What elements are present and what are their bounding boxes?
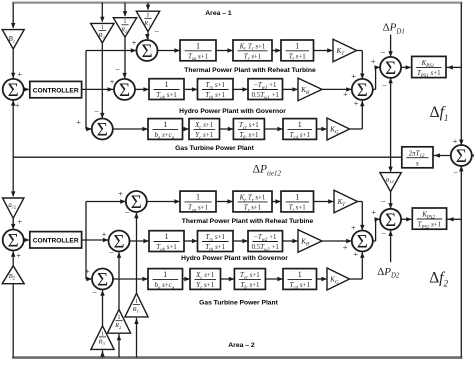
svg-text:R3: R3: [97, 32, 106, 40]
block thermal1 turbine 1/(Tt s+1): [281, 40, 314, 62]
svg-text:Σ: Σ: [357, 232, 368, 253]
svg-text:Σ: Σ: [141, 41, 152, 62]
svg-text:Gas Turbine Power Plant: Gas Turbine Power Plant: [199, 300, 278, 307]
block thermal1 reheat (KrTr s+1)/(Tr s+1): [233, 40, 272, 62]
summing junction thermal1 governor: [132, 27, 160, 63]
svg-text:1: 1: [298, 120, 302, 129]
svg-text:1: 1: [117, 314, 120, 321]
svg-text:Σ: Σ: [385, 58, 396, 79]
wire Δf1 into power system block area1: [446, 65, 461, 69]
summing junction ACE1: [3, 69, 24, 110]
wire gas1 positioner to speed governor: [183, 127, 190, 131]
wire ΔP_D2 into load summer area2: [388, 230, 392, 262]
svg-text:1: 1: [298, 270, 302, 279]
gain B2 (frequency bias area2): [2, 266, 24, 284]
svg-text:CONTROLLER: CONTROLLER: [33, 238, 79, 245]
wire hydro1 droop to water turbine: [233, 87, 248, 91]
block thermal2 reheat (KrTr s+1)/(Tr s+1): [233, 191, 272, 213]
gain B1 (frequency bias area1): [2, 30, 24, 49]
svg-text:−: −: [92, 288, 97, 298]
wire Δf2 up to B2 gain: [12, 284, 14, 358]
svg-text:Σ: Σ: [8, 231, 19, 252]
summing junction load disturbance area2: [371, 197, 401, 238]
svg-text:Σ: Σ: [97, 120, 108, 141]
wire a12 to ACE2 summer: [11, 218, 15, 229]
wire thermal2 summer to governor block: [147, 199, 180, 203]
svg-text:1: 1: [163, 270, 167, 279]
svg-text:+: +: [453, 136, 458, 146]
wire thermal1 reheat to turbine: [272, 48, 281, 52]
wire gas2 summer to valve positioner: [113, 277, 148, 281]
svg-text:+: +: [85, 266, 90, 276]
wire gas1 summer to valve positioner: [113, 127, 148, 131]
wire 1/R2 to hydro2 summer: [117, 252, 121, 309]
wire load summer to power system block area2: [401, 217, 412, 221]
wire thermal2 governor to reheat: [216, 199, 233, 203]
gain 1/R3 governor droop gas area1: [91, 23, 114, 43]
svg-text:−: −: [94, 106, 99, 116]
svg-text:Σ: Σ: [131, 192, 142, 213]
svg-text:R3: R3: [98, 338, 107, 346]
svg-text:Thermal Power Plant with Rehea: Thermal Power Plant with Reheat Turbine: [182, 218, 314, 225]
svg-text:1: 1: [295, 193, 299, 202]
gain KT thermal participation area2: [334, 190, 358, 213]
wire gas1 fuel to compressor discharge: [264, 127, 283, 131]
block gas2 compressor discharge 1/(Tcd s+1): [283, 269, 317, 291]
block thermal2 governor 1/(Tsg s+1): [180, 191, 216, 213]
wire gas2 discharge to KG gain: [317, 277, 328, 281]
wire Δf2 up to 1/R2 area2: [117, 334, 121, 358]
wire branch to thermal2 summer: [86, 199, 126, 203]
svg-text:1: 1: [146, 12, 149, 19]
wire a12 to load summer area2: [388, 192, 392, 209]
wire Δf2 up to 1/R1 area2: [134, 318, 138, 358]
summing junction total generation area1: [343, 71, 373, 108]
wire B2 to ACE2 summer: [11, 251, 15, 266]
wire hydro2 summer to governor block: [130, 239, 150, 243]
wire tie feedback up to ACE1 summer: [11, 100, 15, 157]
wire 1/R3 to gas2 summer: [100, 290, 104, 326]
wire controller2 output to hydro2 summer: [82, 238, 109, 242]
block hydro1 governor 1/(Tgh s+1): [149, 79, 184, 101]
svg-text:1: 1: [123, 18, 126, 25]
wire tie down into a12 gain: [388, 157, 392, 172]
svg-text:R2: R2: [120, 26, 129, 34]
wire load summer to power system block area1: [401, 65, 411, 69]
svg-text:Thermal Power Plant with Rehea: Thermal Power Plant with Reheat Turbine: [184, 67, 316, 74]
wire hydro1 summer to governor block: [135, 87, 149, 91]
wire gas2 positioner to speed governor: [183, 277, 191, 281]
wire branch to gas2 summer: [86, 277, 92, 281]
wire gas1 governor to fuel system: [220, 127, 234, 131]
wire 1/R1 to thermal2 summer: [134, 213, 138, 294]
wire hydro1 governor to transient droop: [184, 87, 198, 91]
svg-text:+: +: [354, 98, 359, 108]
svg-text:+: +: [17, 217, 22, 227]
gain 1/R1 governor droop thermal area2: [125, 293, 148, 317]
svg-text:+: +: [102, 229, 107, 239]
block hydro1 turbine (−Tw s+1)/(0.5Tw s+1): [248, 79, 283, 101]
wire controller1 output to hydro summer: [82, 87, 114, 91]
svg-text:Σ: Σ: [97, 270, 108, 291]
wire KG to generation summer area1: [350, 101, 365, 129]
gain KG gas participation area2: [327, 268, 350, 290]
svg-text:+: +: [132, 38, 137, 48]
wire hydro1 turbine to KH gain: [283, 87, 299, 91]
gain KT thermal participation area1: [333, 39, 357, 62]
wire B1 to ACE1 summer: [11, 49, 15, 78]
svg-text:−: −: [381, 228, 386, 238]
svg-text:+: +: [110, 77, 115, 87]
svg-text:1: 1: [295, 41, 299, 50]
svg-text:−: −: [381, 47, 386, 57]
block hydro2 transient droop (Trs s+1)/(Trh s+1): [198, 231, 234, 253]
wire controller2 branch vertical: [85, 202, 87, 280]
wire ΔP_D1 into load summer area1: [388, 35, 392, 57]
wire thermal1 governor to reheat: [216, 48, 233, 52]
gain 1/R2 governor droop hydro area2: [107, 310, 130, 334]
wire ACE1 to controller1: [24, 87, 30, 91]
wire Δf2 into power system block area2: [447, 217, 461, 221]
svg-text:+: +: [371, 56, 376, 66]
wire generation summer to load summer area2: [373, 217, 380, 241]
block hydro2 turbine (−Tw s+1)/(0.5Tw s+1): [248, 231, 283, 253]
wire thermal2 reheat to turbine: [272, 199, 281, 203]
wire KT to generation summer area1: [357, 51, 365, 80]
svg-text:Σ: Σ: [385, 210, 396, 231]
svg-text:−: −: [453, 167, 458, 177]
svg-text:−: −: [381, 197, 386, 207]
svg-text:ΔPD2: ΔPD2: [377, 266, 402, 280]
svg-text:+: +: [76, 117, 81, 127]
svg-text:R1: R1: [132, 306, 141, 314]
svg-text:−: −: [109, 247, 114, 257]
block power system area2 KPS2/(TPS2 s+1): [412, 208, 446, 230]
wire generation summer to load summer area1: [373, 65, 380, 89]
svg-text:Σ: Σ: [357, 80, 368, 101]
wire KT to generation summer area2: [358, 202, 365, 231]
wire gas1 discharge to KG gain: [317, 127, 328, 131]
svg-text:Δf1: Δf1: [430, 104, 453, 123]
svg-text:1: 1: [196, 193, 200, 202]
wire bottom frequency bus Δf2: [12, 356, 462, 359]
svg-text:R1: R1: [143, 20, 152, 28]
wire KH to generation summer area1: [322, 87, 352, 91]
wire KH to generation summer area2: [322, 239, 352, 243]
wire thermal2 turbine to KT gain: [314, 199, 334, 203]
artifact clipped arrowhead right of tie summer: [471, 154, 474, 158]
wire 1/R1 to thermal1 summer: [145, 32, 149, 40]
wire right bus upper (Δf1 down to tie summer): [459, 3, 463, 146]
svg-text:+: +: [343, 89, 348, 99]
wire KG to generation summer area2: [350, 252, 365, 279]
wire tie-line bus: [13, 156, 402, 158]
wire right bus lower (Δf2 up to tie summer): [459, 166, 463, 358]
block gas2 fuel system (Tcr s+1)/(Tf s+1): [234, 269, 265, 291]
svg-text:1: 1: [196, 41, 200, 50]
wire thermal1 turbine to KT gain: [314, 48, 333, 52]
svg-text:1: 1: [101, 24, 104, 31]
block CONTROLLER area1: [30, 81, 82, 97]
wire 1/R2 to hydro1 summer: [122, 37, 126, 78]
svg-text:+: +: [16, 251, 21, 261]
svg-text:Area – 2: Area – 2: [228, 342, 255, 349]
gain a12 left (tie to ACE2): [3, 198, 24, 218]
wire gas2 fuel to compressor discharge: [265, 277, 283, 281]
svg-text:+: +: [351, 223, 356, 233]
svg-text:+: +: [118, 188, 123, 198]
block gas1 compressor discharge 1/(Tcd s+1): [283, 119, 317, 141]
summing junction gas1 governor: [76, 106, 113, 140]
block thermal2 turbine 1/(Tt s+1): [281, 191, 314, 213]
block gas2 speed governor (Xc s+1)/(Yc s+1): [190, 269, 221, 291]
svg-text:Σ: Σ: [8, 80, 19, 101]
svg-text:1: 1: [165, 232, 169, 241]
svg-text:ΔPD1: ΔPD1: [383, 21, 408, 35]
wire Δf1 drop to 1/R3 gas: [100, 3, 104, 23]
wire gas2 governor to fuel system: [221, 277, 235, 281]
summing junction ACE2: [3, 217, 24, 261]
svg-text:CONTROLLER: CONTROLLER: [33, 87, 79, 94]
svg-text:Gas Turbine Power Plant: Gas Turbine Power Plant: [175, 145, 254, 152]
svg-text:Σ: Σ: [119, 80, 130, 101]
svg-text:−: −: [125, 207, 130, 217]
wire controller1 branch vertical: [85, 51, 87, 130]
summing junction total generation area2: [343, 223, 373, 259]
wire Δf1 drop to 1/R2 hydro: [123, 3, 127, 17]
svg-text:−: −: [154, 27, 159, 37]
wire Δf2 up to 1/R3 area2: [100, 350, 104, 357]
block thermal1 governor 1/(Tsg s+1): [180, 40, 216, 62]
wire top frequency bus Δf1: [12, 1, 462, 3]
gain KH hydro participation area1: [298, 78, 322, 101]
wire Δf1 drop to 1/R1 thermal: [146, 3, 150, 11]
wire hydro2 governor to transient droop: [184, 239, 198, 243]
svg-text:+: +: [15, 100, 20, 110]
svg-text:s: s: [416, 159, 419, 167]
block gas2 valve positioner 1/(bg s+cg): [148, 269, 183, 291]
wire 1/R3 to gas1 summer: [100, 43, 104, 119]
block gas1 speed governor (Xc s+1)/(Yc s+1): [189, 119, 220, 141]
block hydro1 transient droop (Trs s+1)/(Trh s+1): [198, 79, 234, 101]
svg-text:1: 1: [135, 298, 138, 305]
summing junction thermal2 governor: [118, 188, 147, 217]
wire tie summer to tie block: [434, 153, 451, 157]
svg-text:+: +: [353, 249, 358, 259]
wire branch to thermal1 summer: [86, 48, 136, 52]
gain 1/R1 governor droop thermal area1: [136, 11, 159, 31]
wire branch to gas1 summer: [86, 127, 92, 131]
svg-text:Hydro Power Plant with Governo: Hydro Power Plant with Governor: [181, 255, 288, 262]
wire ACE2 to controller2: [24, 238, 30, 242]
svg-text:+: +: [343, 242, 348, 252]
wire tie bus down left a12 gain: [11, 157, 15, 197]
gain a12 middle (tie to area2 load summer): [380, 173, 401, 192]
block power system area1 KPS1/(TPS1 s+1): [412, 56, 446, 78]
svg-text:Σ: Σ: [113, 232, 124, 253]
wire thermal1 summer to governor block: [158, 48, 181, 52]
svg-text:+: +: [371, 207, 376, 217]
wire tie feedback up to area1 load summer: [388, 78, 392, 158]
svg-text:+: +: [17, 69, 22, 79]
wire Δf1 drop to B1 gain: [11, 3, 15, 29]
svg-text:1: 1: [165, 80, 169, 89]
wire hydro2 droop to water turbine: [233, 239, 248, 243]
wire hydro2 turbine to KH gain: [283, 239, 299, 243]
svg-text:Hydro Power Plant with Governo: Hydro Power Plant with Governor: [179, 108, 286, 115]
gain KH hydro participation area2: [298, 230, 322, 253]
summing junction gas2 governor: [85, 266, 113, 297]
svg-text:1: 1: [101, 330, 104, 337]
gain 1/R2 governor droop hydro area1: [113, 18, 136, 38]
summing junction hydro2 governor: [102, 229, 130, 257]
block tie-line 2πT12/s: [402, 147, 433, 168]
block gas1 fuel system (Tcr s+1)/(Tf s+1): [233, 119, 264, 141]
block gas1 valve positioner 1/(bg s+cg): [148, 119, 183, 141]
summing junction load disturbance area1: [371, 47, 401, 90]
block hydro2 governor 1/(Tgh s+1): [149, 231, 184, 253]
svg-text:+: +: [351, 71, 356, 81]
svg-text:Area – 1: Area – 1: [205, 10, 232, 17]
svg-text:−: −: [115, 64, 120, 74]
svg-text:R2: R2: [114, 322, 123, 330]
gain KG gas participation area1: [327, 118, 350, 140]
svg-text:Σ: Σ: [456, 146, 467, 167]
gain 1/R3 governor droop gas area2: [91, 326, 114, 350]
svg-text:Δf2: Δf2: [429, 269, 452, 288]
svg-text:−: −: [382, 80, 387, 90]
block CONTROLLER area2: [30, 232, 82, 248]
summing junction tie-line (Δf1 − Δf2): [451, 136, 472, 178]
summing junction hydro1 governor: [110, 64, 135, 101]
svg-text:1: 1: [163, 120, 167, 129]
